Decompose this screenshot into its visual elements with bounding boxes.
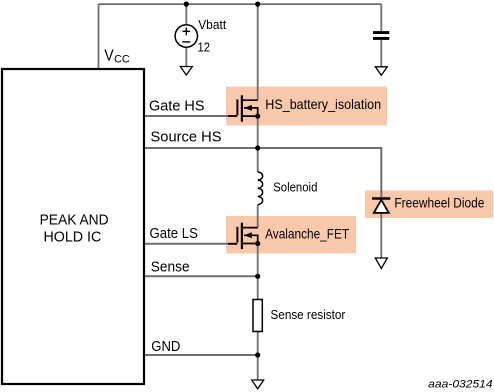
svg-text:Gate LS: Gate LS xyxy=(150,226,198,242)
svg-text:aaa-032514: aaa-032514 xyxy=(428,379,492,391)
junction dot top rail drain xyxy=(255,2,260,7)
ground under Vbatt xyxy=(180,67,192,76)
source stub xyxy=(242,115,258,117)
svg-text:GND: GND xyxy=(151,339,180,355)
wire Gate HS xyxy=(144,115,237,117)
junction dot top rail Vbatt xyxy=(184,2,189,7)
wire GND node to ground xyxy=(257,355,259,380)
highlight box Avalanche_FET xyxy=(226,216,356,254)
wire Sense node to sense resistor xyxy=(257,276,259,299)
transistor Q1 HS_battery_isolation xyxy=(228,95,258,121)
solenoid L1 xyxy=(258,172,263,205)
wire capacitor top xyxy=(380,4,382,31)
wire Source HS node to solenoid xyxy=(257,148,259,172)
junction dot Q2 source xyxy=(255,241,260,246)
svg-text:Sense: Sense xyxy=(151,259,190,275)
svg-text:CC: CC xyxy=(114,54,130,66)
sense resistor R1 xyxy=(253,300,262,332)
gate lead inside box xyxy=(228,115,237,117)
svg-text:HS_battery_isolation: HS_battery_isolation xyxy=(265,97,381,112)
voltage source Vbatt xyxy=(175,25,197,47)
highlight box Freewheel Diode xyxy=(365,191,493,219)
wire capacitor bottom to ground xyxy=(380,40,382,67)
svg-text:Freewheel Diode: Freewheel Diode xyxy=(394,196,484,211)
transistor Q2 Avalanche_FET xyxy=(228,223,258,249)
drain stub xyxy=(242,99,258,101)
junction dot GND node xyxy=(255,352,260,357)
svg-text:PEAK AND: PEAK AND xyxy=(40,212,109,228)
wire GND xyxy=(144,354,258,356)
svg-text:Source HS: Source HS xyxy=(151,130,222,146)
svg-text:HOLD IC: HOLD IC xyxy=(43,229,101,245)
wire Q2 source to Sense xyxy=(257,244,259,277)
junction dot Sense node xyxy=(255,274,260,279)
wire Q1 source to Source HS xyxy=(257,116,259,148)
source stub xyxy=(242,243,258,245)
IC box PEAK AND HOLD IC xyxy=(2,69,144,384)
wire Gate LS xyxy=(144,243,237,245)
wire VCC vertical into IC xyxy=(98,4,100,69)
ground under capacitor xyxy=(375,67,387,76)
channel bar xyxy=(241,95,243,121)
svg-text:Sense resistor: Sense resistor xyxy=(271,307,346,322)
wire Vbatt top xyxy=(185,4,187,25)
freewheel diode D1 xyxy=(372,197,390,199)
wire drain vertical Q1 xyxy=(257,4,259,100)
svg-text:12: 12 xyxy=(198,40,211,55)
wire top rail xyxy=(99,3,382,5)
junction dot Source HS / solenoid xyxy=(255,145,260,150)
svg-text:Avalanche_FET: Avalanche_FET xyxy=(265,227,350,242)
wire sense resistor to GND node xyxy=(257,332,259,356)
drain stub xyxy=(242,227,258,229)
ground under freewheel diode xyxy=(375,258,387,269)
gate lead inside box xyxy=(228,243,237,245)
gate bar xyxy=(236,99,238,115)
wire Source HS xyxy=(144,148,381,197)
wire Vbatt bottom to ground xyxy=(185,47,187,66)
wire Sense xyxy=(144,275,258,277)
svg-text:V: V xyxy=(104,48,114,65)
ground under GND node xyxy=(252,380,264,389)
arrow of Q1 body xyxy=(244,105,252,111)
wire solenoid to Q2 drain xyxy=(257,205,259,228)
arrow of Q2 body xyxy=(244,232,252,238)
body stub xyxy=(244,235,258,243)
svg-text:Vbatt: Vbatt xyxy=(198,17,226,32)
highlight box HS_battery_isolation xyxy=(226,87,387,126)
svg-text:Gate HS: Gate HS xyxy=(149,99,205,115)
wire freewheel diode to ground xyxy=(380,213,382,258)
svg-text:Solenoid: Solenoid xyxy=(273,180,317,195)
junction dot Q1 source xyxy=(255,114,260,119)
body stub xyxy=(244,108,258,116)
gate bar xyxy=(236,227,238,243)
channel bar xyxy=(241,223,243,249)
capacitor C1 xyxy=(373,31,389,34)
